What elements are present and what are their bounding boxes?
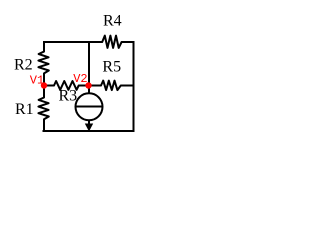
- svg-text:R5: R5: [102, 59, 121, 76]
- wire mid row R3 to V2: [79, 85, 101, 87]
- resistor R5: [101, 81, 121, 91]
- resistor R3: [54, 81, 79, 90]
- wire bottom rail: [43, 130, 135, 132]
- wire mid row R5 to right rail: [121, 85, 134, 87]
- current source circle: [76, 93, 103, 120]
- svg-text:R2: R2: [14, 57, 33, 74]
- svg-text:R4: R4: [103, 13, 122, 30]
- wire left column bottom: [43, 119, 45, 132]
- wire top rail right: [122, 41, 135, 43]
- wire right rail: [133, 41, 135, 132]
- wire left column middle: [43, 73, 45, 97]
- resistor R1: [38, 98, 48, 120]
- svg-text:R3: R3: [59, 87, 78, 104]
- svg-text:R1: R1: [15, 101, 34, 118]
- wire top rail left: [44, 41, 103, 43]
- wire V2 node to current source: [88, 86, 90, 94]
- wire V2 column from top rail: [88, 42, 90, 86]
- resistor R2: [38, 52, 48, 74]
- node V2 dot: [85, 82, 91, 88]
- node V1 dot: [41, 82, 47, 88]
- svg-text:V2: V2: [73, 72, 87, 86]
- wire left column top: [43, 41, 45, 52]
- resistor R4: [102, 36, 121, 48]
- wire mid row V1 to R3: [44, 85, 55, 87]
- current source arrow stem: [88, 120, 90, 125]
- current source bar: [76, 106, 103, 108]
- current source arrowhead: [85, 124, 93, 132]
